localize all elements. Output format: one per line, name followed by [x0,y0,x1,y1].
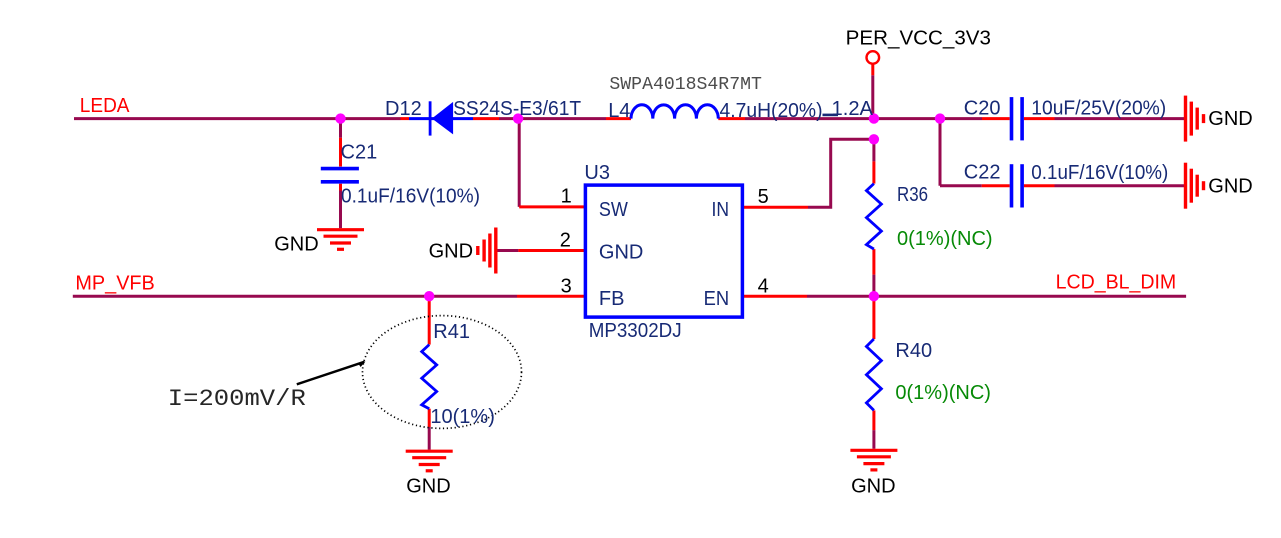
svg-text:0(1%)(NC): 0(1%)(NC) [897,228,993,250]
svg-text:LEDA: LEDA [80,95,130,117]
svg-text:MP_VFB: MP_VFB [75,273,154,295]
svg-text:C22: C22 [964,162,1001,184]
svg-text:R40: R40 [895,340,932,362]
svg-text:R36: R36 [897,184,928,206]
svg-text:2: 2 [560,230,571,252]
svg-text:GND: GND [429,241,473,263]
svg-text:SW: SW [599,199,628,221]
svg-text:MP3302DJ: MP3302DJ [589,320,682,342]
svg-text:GND: GND [1208,108,1252,130]
svg-text:5: 5 [758,186,769,208]
svg-text:GND: GND [274,234,318,256]
svg-text:R41: R41 [433,321,470,343]
svg-text:I=200mV/R: I=200mV/R [168,386,306,412]
svg-text:GND: GND [599,242,643,264]
svg-text:0.1uF/16V(10%): 0.1uF/16V(10%) [341,186,480,208]
svg-text:GND: GND [406,476,450,498]
svg-text:4.7uH(20%): 4.7uH(20%) [720,100,823,122]
svg-text:1.2A: 1.2A [832,98,874,120]
svg-text:C20: C20 [964,98,1001,120]
svg-text:4: 4 [758,276,769,298]
svg-text:EN: EN [704,288,730,310]
svg-text:0(1%)(NC): 0(1%)(NC) [895,382,991,404]
svg-text:SS24S-E3/61T: SS24S-E3/61T [453,98,581,120]
svg-text:GND: GND [851,476,895,498]
svg-text:SWPA4018S4R7MT: SWPA4018S4R7MT [609,75,762,95]
svg-text:3: 3 [561,276,572,298]
svg-text:10(1%): 10(1%) [430,406,494,428]
svg-text:U3: U3 [584,162,610,184]
svg-text:PER_VCC_3V3: PER_VCC_3V3 [846,28,991,50]
svg-text:GND: GND [1208,176,1252,198]
svg-text:IN: IN [712,199,730,221]
svg-text:LCD_BL_DIM: LCD_BL_DIM [1056,272,1177,294]
svg-text:L4: L4 [608,100,630,122]
svg-text:FB: FB [599,288,625,310]
svg-text:1: 1 [561,186,572,208]
svg-text:D12: D12 [385,98,422,120]
svg-text:10uF/25V(20%): 10uF/25V(20%) [1031,98,1166,120]
svg-text:0.1uF/16V(10%): 0.1uF/16V(10%) [1031,162,1168,184]
svg-text:C21: C21 [341,142,378,164]
